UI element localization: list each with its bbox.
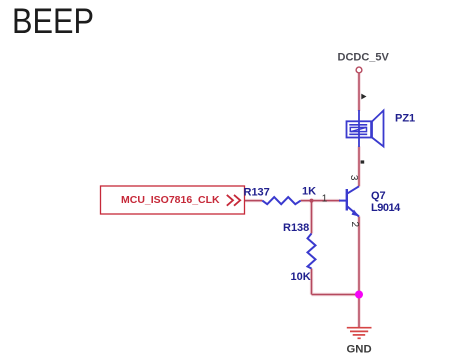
svg-text:GND: GND — [347, 343, 372, 355]
svg-text:1K: 1K — [302, 186, 316, 198]
svg-text:L9014: L9014 — [371, 202, 401, 214]
svg-text:PZ1: PZ1 — [395, 113, 415, 125]
svg-text:Q7: Q7 — [371, 190, 386, 202]
svg-text:R138: R138 — [283, 222, 309, 234]
svg-text:2: 2 — [349, 222, 360, 228]
svg-text:MCU_ISO7816_CLK: MCU_ISO7816_CLK — [121, 194, 220, 206]
svg-text:10K: 10K — [291, 271, 311, 283]
svg-text:DCDC_5V: DCDC_5V — [338, 52, 390, 64]
svg-text:BEEP: BEEP — [12, 2, 94, 41]
svg-text:R137: R137 — [244, 187, 270, 199]
svg-text:3: 3 — [348, 175, 359, 181]
svg-text:1: 1 — [322, 193, 328, 204]
